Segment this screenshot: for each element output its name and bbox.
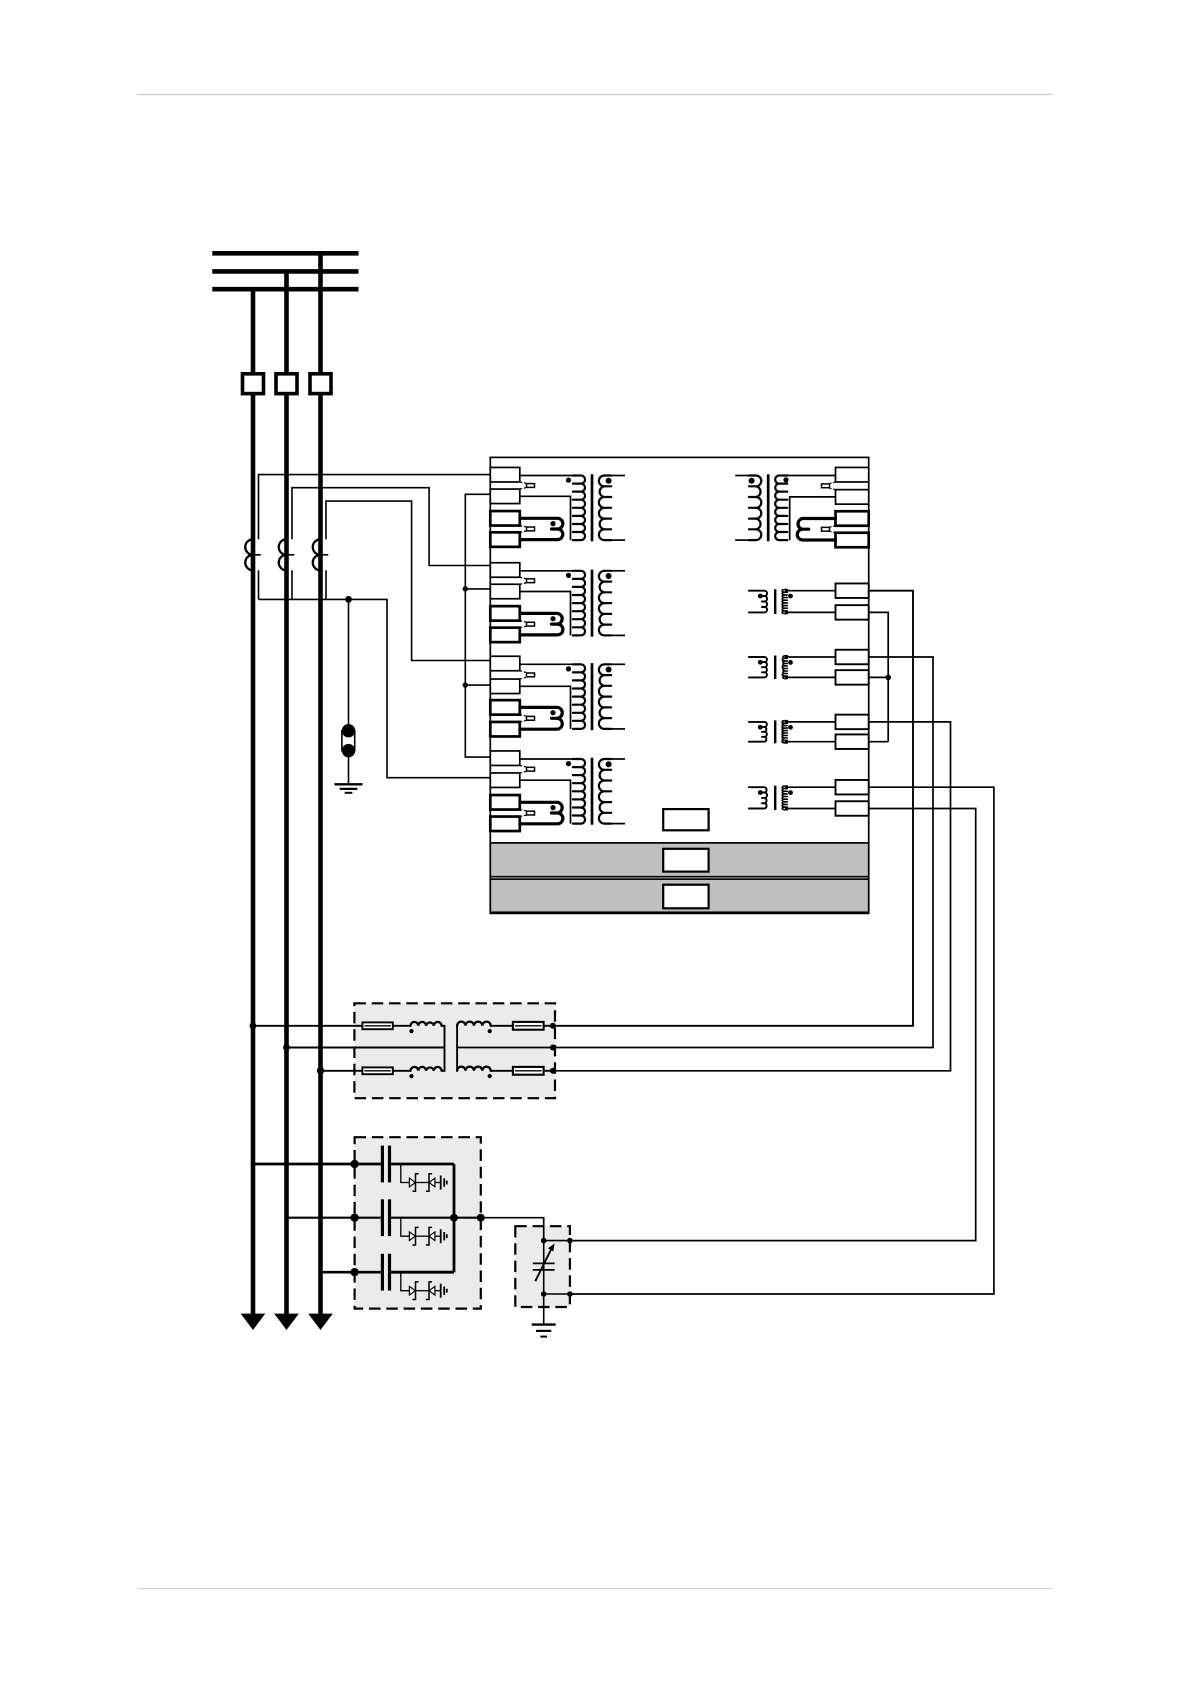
fuse F7 bbox=[513, 1022, 544, 1030]
transformer T2 primary winding bbox=[573, 571, 585, 636]
terminal X6-2 bbox=[836, 605, 869, 620]
wire terminal to winding T2 bbox=[520, 570, 581, 572]
node matching out 2 bbox=[550, 1045, 556, 1051]
through conductor dot T4 bbox=[550, 805, 555, 810]
wire matching transformer left link bbox=[442, 1026, 445, 1071]
wire T7 output b bbox=[869, 676, 889, 678]
fuse F2 bbox=[276, 374, 297, 394]
busbar L2 bbox=[212, 269, 358, 274]
transformer T6 core bbox=[774, 589, 776, 614]
terminal X9-1 bbox=[836, 780, 869, 795]
wire terminal return T4 bbox=[520, 780, 571, 823]
transformer T3 primary polarity dot bbox=[566, 666, 571, 671]
node arrester bottom bbox=[541, 1291, 547, 1297]
test plug X4 upper bbox=[520, 765, 536, 773]
wire T8 output a bbox=[553, 722, 951, 1071]
terminal X1-4 bbox=[490, 532, 520, 547]
test plug X4 lower bbox=[520, 810, 536, 817]
capacitor C1 bbox=[381, 1146, 384, 1183]
terminal X3-3 bbox=[490, 700, 520, 715]
wire T9 output a bbox=[570, 787, 994, 1294]
wire T8 output b bbox=[869, 741, 889, 743]
primary through conductor T4 bbox=[520, 802, 563, 824]
wire capacitor common bbox=[453, 1164, 456, 1272]
phase A conductor bbox=[251, 289, 256, 1317]
current transformer CT1 bbox=[245, 539, 261, 570]
surge arrester F9 bbox=[533, 1244, 555, 1282]
relay bar 1 label plate bbox=[663, 849, 708, 872]
terminal X9-2 bbox=[836, 801, 869, 816]
protective diode network D2 bbox=[401, 1218, 447, 1245]
transformer T6 primary winding bbox=[749, 591, 767, 613]
line matching unit enclosure bbox=[354, 1003, 555, 1098]
transformer T5 secondary polarity dot bbox=[749, 478, 755, 484]
transformer T7 primary winding bbox=[749, 657, 767, 677]
wire CT3 secondary top bbox=[326, 501, 490, 660]
wire T8 secondary leads bbox=[785, 721, 836, 723]
wire arrester out top bbox=[544, 1240, 570, 1242]
node capacitor unit in 2 bbox=[350, 1214, 358, 1222]
phase B conductor bbox=[284, 271, 289, 1317]
fuse F6 bbox=[362, 1067, 392, 1074]
coupling capacitor unit enclosure bbox=[355, 1137, 481, 1308]
node phase B tap bbox=[283, 1044, 290, 1051]
fuse F3 bbox=[310, 374, 331, 394]
wire phase A to capacitor C1 bbox=[253, 1163, 381, 1166]
terminal X5-3 bbox=[836, 511, 869, 526]
terminal X3-4 bbox=[490, 722, 520, 737]
wire phase C to capacitor C3 bbox=[321, 1271, 381, 1274]
transformer T5 primary winding bbox=[775, 476, 787, 541]
terminal X2-3 bbox=[490, 606, 520, 621]
relay label plate bbox=[663, 809, 708, 830]
transformer T4 primary polarity dot bbox=[566, 761, 571, 766]
wire T6 output a bbox=[553, 591, 913, 1026]
transformer T6 secondary polarity dot bbox=[788, 594, 793, 599]
transformer T7 primary polarity dot bbox=[758, 660, 763, 665]
transformer T5 secondary winding bbox=[749, 476, 761, 541]
phase B feeder arrow bbox=[274, 1314, 299, 1330]
test plug X3 lower bbox=[520, 715, 536, 722]
wire terminal to winding T1 bbox=[520, 475, 581, 477]
node capacitor unit in 1 bbox=[350, 1160, 358, 1168]
terminal X2-4 bbox=[490, 628, 520, 643]
transformer T8 secondary polarity dot bbox=[788, 725, 793, 730]
node capacitor unit in 3 bbox=[350, 1268, 358, 1276]
wire relay return bus bbox=[465, 494, 490, 757]
terminal X5-4 bbox=[836, 533, 869, 548]
transformer T4 core bbox=[591, 758, 594, 825]
protection relay U1 bbox=[490, 457, 868, 913]
transformer T3 core bbox=[591, 663, 594, 730]
wire to arrester bbox=[481, 1218, 544, 1241]
through conductor dot T2 bbox=[550, 616, 555, 621]
wire capacitor C1 out bbox=[391, 1163, 454, 1166]
busbar L3 bbox=[212, 287, 358, 292]
wire CT3 secondary bottom bbox=[325, 570, 327, 599]
transformer T7 core bbox=[774, 656, 776, 680]
inductor L2 polarity dot bbox=[409, 1074, 413, 1078]
wire CT input 4 into terminal bbox=[490, 756, 494, 758]
transformer T1 primary polarity dot bbox=[566, 478, 571, 483]
transformer T6 primary polarity dot bbox=[758, 594, 763, 599]
inductor L4 polarity dot bbox=[488, 1074, 492, 1078]
wire T2 secondary leads bbox=[611, 570, 625, 572]
wire T9 output b bbox=[570, 809, 976, 1241]
transformer T7 secondary polarity dot bbox=[788, 660, 793, 665]
test plug X2 lower bbox=[520, 621, 536, 628]
wire capacitor C3 out bbox=[391, 1271, 454, 1274]
inductor L4 bbox=[457, 1067, 491, 1071]
primary through conductor T5 bbox=[797, 519, 835, 541]
wire arrester to earth bbox=[543, 1294, 545, 1325]
terminal X3-1 bbox=[490, 656, 520, 671]
node return bus tap 2 bbox=[463, 682, 468, 687]
transformer T9 primary winding bbox=[749, 787, 767, 808]
terminal X1-3 bbox=[490, 511, 520, 526]
node phase C tap bbox=[317, 1067, 324, 1074]
transformer T1 secondary polarity dot bbox=[606, 478, 612, 484]
transformer T8 primary polarity dot bbox=[758, 725, 763, 730]
transformer T8 secondary winding bbox=[782, 721, 787, 743]
wire T5 return to terminal bbox=[790, 497, 836, 540]
transformer T5 primary polarity dot bbox=[783, 477, 788, 482]
protective diode network D1 bbox=[401, 1164, 447, 1191]
terminal X3-2 bbox=[490, 679, 520, 694]
wire phase A to matching unit bbox=[253, 1025, 362, 1027]
wire T6 secondary leads bbox=[785, 590, 836, 592]
wire arrester out bottom bbox=[544, 1293, 570, 1295]
test plug X2 upper bbox=[520, 577, 536, 584]
wire CT2 secondary bottom bbox=[291, 570, 293, 599]
transformer T2 primary polarity dot bbox=[566, 573, 571, 578]
transformer T6 secondary winding bbox=[782, 590, 787, 614]
inductor L1 polarity dot bbox=[409, 1029, 413, 1033]
terminal X1-2 bbox=[490, 489, 520, 504]
transformer T9 primary polarity dot bbox=[758, 790, 763, 795]
transformer T8 primary winding bbox=[749, 722, 767, 742]
phase C conductor bbox=[318, 253, 323, 1317]
wire terminal to winding T3 bbox=[520, 663, 581, 665]
wire terminal to winding T4 bbox=[520, 758, 581, 760]
inductor L1 bbox=[410, 1022, 441, 1026]
wire fuse F6 to coil L2 bbox=[393, 1070, 411, 1072]
node phase A tap bbox=[250, 1022, 257, 1029]
wire terminal return T1 bbox=[520, 496, 571, 540]
node arrester out bottom bbox=[567, 1291, 573, 1297]
wire T7 output a bbox=[553, 657, 933, 1048]
terminal X7-2 bbox=[836, 670, 869, 685]
protective diode network D3 bbox=[401, 1272, 447, 1299]
wire phase C to matching unit bbox=[321, 1070, 363, 1072]
fuse F8 bbox=[513, 1067, 544, 1075]
test plug X5 upper bbox=[820, 482, 835, 490]
transformer T9 core bbox=[774, 786, 776, 810]
transformer T3 secondary winding bbox=[599, 664, 611, 729]
busbar L1 bbox=[212, 251, 358, 256]
wire T3 secondary leads bbox=[611, 663, 625, 665]
test plug X3 upper bbox=[520, 671, 536, 679]
node arrester out top bbox=[567, 1238, 573, 1244]
relay mounting bar 2 bbox=[490, 879, 868, 912]
wire fuse F7 out bbox=[544, 1025, 553, 1027]
primary through conductor T3 bbox=[520, 707, 562, 729]
transformer T1 secondary winding bbox=[599, 476, 611, 541]
through conductor dot T3 bbox=[550, 710, 555, 715]
test plug X1 lower bbox=[520, 526, 536, 533]
node matching out 3 bbox=[550, 1068, 556, 1074]
inductor L3 polarity dot bbox=[488, 1029, 492, 1033]
terminal X4-3 bbox=[490, 795, 520, 810]
terminal X5-1 bbox=[836, 467, 869, 482]
wire fuse F8 out bbox=[544, 1070, 553, 1072]
wire capacitor unit output bbox=[454, 1217, 481, 1219]
node capacitor common bbox=[450, 1214, 458, 1222]
terminal X2-2 bbox=[490, 584, 520, 599]
wire CT input 1 into terminal bbox=[490, 474, 494, 476]
relay bar 2 label plate bbox=[663, 885, 708, 909]
wire fuse F5 to coil L1 bbox=[393, 1025, 411, 1027]
earth E1 bbox=[335, 784, 363, 793]
transformer T2 secondary winding bbox=[599, 571, 611, 636]
inductor L2 bbox=[410, 1067, 441, 1071]
transformer T2 secondary polarity dot bbox=[606, 573, 612, 579]
terminal X4-1 bbox=[490, 751, 520, 766]
earth E2 bbox=[532, 1325, 556, 1337]
wire CT1 secondary top bbox=[259, 475, 491, 540]
transformer T9 secondary winding bbox=[782, 786, 787, 810]
fuse F1 bbox=[243, 374, 264, 394]
wire CT common bbox=[259, 599, 491, 777]
wire CT input 2 into terminal bbox=[490, 565, 494, 567]
current transformer CT3 bbox=[313, 539, 329, 570]
terminal X8-1 bbox=[836, 715, 869, 730]
terminal X1-1 bbox=[490, 467, 520, 482]
terminal X7-1 bbox=[836, 650, 869, 665]
terminal X4-2 bbox=[490, 773, 520, 788]
wire phase B to matching unit bbox=[287, 1047, 445, 1049]
wire capacitor C2 out bbox=[391, 1217, 454, 1219]
fuse F5 bbox=[362, 1022, 392, 1029]
wire CT input 3 into terminal bbox=[490, 660, 494, 662]
terminal X8-2 bbox=[836, 734, 869, 749]
node arrester top bbox=[541, 1238, 547, 1244]
wire T5 secondary leads bbox=[735, 475, 749, 477]
capacitor C3 bbox=[381, 1254, 384, 1291]
node matching out 1 bbox=[550, 1023, 556, 1029]
transformer T8 core bbox=[774, 720, 776, 743]
wire matching row 2 bbox=[457, 1047, 553, 1049]
phase A feeder arrow bbox=[241, 1314, 266, 1330]
transformer T2 core bbox=[591, 570, 594, 637]
transformer T4 primary winding bbox=[573, 759, 585, 824]
node capacitor unit out bbox=[477, 1214, 485, 1222]
transformer T5 core bbox=[767, 474, 770, 541]
primary through conductor T2 bbox=[520, 613, 563, 635]
node return bus tap 1 bbox=[463, 586, 468, 591]
wire surge protector to earth bbox=[348, 751, 350, 785]
wire terminal return T3 bbox=[520, 686, 571, 729]
wire matching transformer right link bbox=[456, 1026, 458, 1071]
wire CT2 secondary top bbox=[292, 488, 490, 566]
test plug X5 lower bbox=[820, 526, 835, 533]
transformer T4 secondary polarity dot bbox=[606, 761, 612, 767]
transformer T4 secondary winding bbox=[599, 759, 611, 824]
phase C feeder arrow bbox=[308, 1314, 333, 1330]
transformer T3 primary winding bbox=[573, 664, 585, 729]
wire phase B to capacitor C2 bbox=[287, 1217, 381, 1219]
node CT star point bbox=[345, 596, 352, 603]
primary through conductor T1 bbox=[520, 518, 563, 539]
terminal X5-2 bbox=[836, 490, 869, 505]
current transformer CT2 bbox=[279, 539, 295, 570]
wire T5 primary to terminal bbox=[779, 475, 835, 477]
transformer T3 secondary polarity dot bbox=[606, 667, 612, 673]
wire coil L3 to fuse F7 bbox=[491, 1025, 513, 1027]
transformer T7 secondary winding bbox=[782, 656, 787, 679]
wire T9 secondary leads bbox=[785, 786, 836, 788]
surge protector F4 bbox=[342, 724, 355, 757]
wire T1 secondary leads bbox=[611, 475, 625, 477]
wire star point to surge protector bbox=[348, 599, 350, 724]
surge arrester unit enclosure bbox=[515, 1226, 570, 1307]
capacitor C2 bbox=[381, 1199, 384, 1236]
page footer rule bbox=[138, 1588, 1052, 1590]
terminal X2-1 bbox=[490, 563, 520, 578]
wire coil L4 to fuse F8 bbox=[491, 1070, 513, 1072]
node output common junction bbox=[885, 675, 891, 681]
terminal X6-1 bbox=[836, 583, 869, 598]
surge arrester F9 lead bbox=[543, 1241, 545, 1294]
relay mounting bar 1 bbox=[490, 843, 868, 877]
transformer T1 core bbox=[591, 474, 594, 541]
wire T7 secondary leads bbox=[785, 656, 836, 658]
wire terminal return T2 bbox=[520, 592, 571, 636]
test plug X1 upper bbox=[520, 482, 536, 489]
wire T6 output b bbox=[869, 612, 889, 741]
wire T4 secondary leads bbox=[611, 758, 625, 760]
inductor L3 bbox=[457, 1022, 491, 1026]
page header rule bbox=[137, 94, 1052, 96]
through conductor dot T1 bbox=[550, 521, 555, 526]
transformer T9 secondary polarity dot bbox=[788, 790, 793, 795]
terminal X4-4 bbox=[490, 817, 520, 832]
wire CT1 secondary bottom bbox=[258, 570, 260, 599]
transformer T1 primary winding bbox=[573, 476, 585, 541]
